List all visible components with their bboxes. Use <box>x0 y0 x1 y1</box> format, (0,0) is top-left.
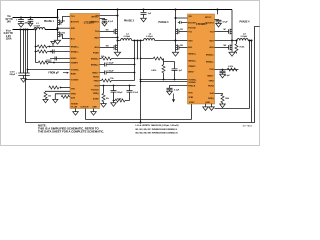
wire R temp tail <box>236 52 238 53</box>
node VOUT rail tap <box>26 28 28 30</box>
svg-text:PGOOD: PGOOD <box>188 27 196 29</box>
node ITH2 cap <box>222 69 224 71</box>
resistor RRUN1 <box>44 92 47 99</box>
resistor R temp lead <box>236 41 238 44</box>
svg-text:120A: 120A <box>6 38 12 41</box>
wire U2 BG2 gate <box>215 46 229 48</box>
node sense tap <box>34 28 36 30</box>
wire R3 to IC <box>36 62 71 64</box>
node L4 out b <box>250 39 252 41</box>
ground IC1 bottom A <box>73 112 79 116</box>
capacitor CIN1 leads <box>18 18 24 24</box>
svg-text:COUT: COUT <box>10 71 15 73</box>
svg-text:VOSNS−: VOSNS− <box>188 82 197 84</box>
svg-text:BOOST1: BOOST1 <box>188 22 197 24</box>
ground comp <box>111 101 117 107</box>
node L4 out a <box>248 39 250 41</box>
ground ILIM <box>53 99 58 102</box>
svg-text:PGND: PGND <box>93 52 99 54</box>
phase2 drain drop <box>117 10 119 52</box>
node VOSNS- <box>25 79 27 81</box>
svg-text:BOOST2: BOOST2 <box>90 21 99 23</box>
phase4 drain drop <box>231 10 233 52</box>
svg-text:THE DATA SHEET FOR A COMPLETE: THE DATA SHEET FOR A COMPLETE SCHEMATIC. <box>38 130 104 134</box>
inductor L3 <box>144 39 155 41</box>
wire sync arrow <box>173 94 175 100</box>
ground IC2 bottom B <box>209 107 215 111</box>
IC U1 left pin labels <box>71 16 80 100</box>
node VOUT mid tap <box>136 39 138 41</box>
ground C VIN mid <box>141 18 147 22</box>
resistor RITH1 <box>49 86 59 89</box>
wire SNS3 a <box>141 79 188 81</box>
IC U2 right pin labels <box>205 22 214 100</box>
IC U1 bottom pin labels <box>71 104 97 109</box>
svg-text:GND: GND <box>92 106 97 108</box>
svg-text:0.33µH: 0.33µH <box>146 36 153 38</box>
op-amp U1 LTC3877 block <box>70 14 100 109</box>
svg-text:2.2nF: 2.2nF <box>133 92 139 94</box>
svg-text:TRACK: TRACK <box>188 84 196 87</box>
wire TG2 gate <box>100 31 115 33</box>
svg-text:0.22µF: 0.22µF <box>107 71 114 73</box>
capacitor C INTVCC2 <box>216 20 222 23</box>
wire VOUT mid drop C <box>140 41 142 123</box>
node SNS3 c <box>174 79 176 81</box>
node ITH1 <box>60 87 62 89</box>
IC U1 right pin labels <box>90 15 99 100</box>
node VOUT ring join <box>139 121 141 123</box>
ground C TRACK <box>167 91 173 95</box>
wire SNSA2 <box>100 64 135 66</box>
wire SNSD2 <box>100 58 135 60</box>
resistor R SNS2 <box>102 79 112 82</box>
VOUT return ring wire <box>26 27 260 123</box>
op-amp U2 LTC3877 block <box>188 14 215 104</box>
wire R1b to IC <box>36 51 71 53</box>
wire SNS2 b <box>100 80 135 82</box>
svg-text:PHASE 3: PHASE 3 <box>159 21 170 24</box>
svg-text:L1-L4: WÜRTH 744301033 (0.33µH: L1-L4: WÜRTH 744301033 (0.33µH, 0.32mΩ) <box>136 124 179 127</box>
svg-text:RUN2: RUN2 <box>208 85 214 87</box>
svg-text:VFB2: VFB2 <box>94 80 100 82</box>
node comp gnd <box>113 100 115 102</box>
inductor L4 <box>237 39 248 41</box>
wire U2 SW2 <box>215 40 233 42</box>
wire SNS2 <box>100 72 135 74</box>
svg-text:SNSA1+: SNSA1+ <box>71 50 80 53</box>
resistor RT <box>221 94 224 102</box>
inductor L1 <box>34 28 45 30</box>
node SNSD2 tap <box>134 58 136 60</box>
svg-text:SNSA2+: SNSA2+ <box>91 64 100 67</box>
wire U2 TG1 gate <box>179 31 188 33</box>
node rail phase3 <box>174 8 176 10</box>
svg-text:4.7µF: 4.7µF <box>223 20 229 23</box>
svg-text:SNS1−: SNS1− <box>71 58 78 60</box>
svg-text:FREQ: FREQ <box>208 98 214 100</box>
node SNSA2 tap <box>134 64 136 66</box>
svg-text:M5: M5 <box>180 29 183 31</box>
svg-text:SNS2−: SNS2− <box>207 75 214 77</box>
ground M2 source <box>54 40 60 44</box>
capacitor 2.2nF <box>127 86 133 101</box>
node SNS3 d <box>140 81 142 83</box>
wire CLKOUT drop <box>85 109 87 120</box>
wire INTVCC2 <box>215 19 219 22</box>
wire RT lead <box>215 93 223 96</box>
svg-text:M1, M3, M5, M7: INFINEON BSC05: M1, M3, M5, M7: INFINEON BSC050NE2LS <box>136 129 178 131</box>
svg-text:BOOST1: BOOST1 <box>71 21 80 23</box>
svg-text:0.33µH: 0.33µH <box>241 36 248 38</box>
resistor R100k lead <box>103 86 105 94</box>
note text left <box>38 123 104 133</box>
resistor 4.53k <box>115 99 125 102</box>
resistor R1b <box>37 50 47 53</box>
node SNS3 a <box>140 79 142 81</box>
inductor line phase2/3 <box>118 40 176 42</box>
wire VOUT mid drop A <box>134 41 136 81</box>
svg-text:ILIM: ILIM <box>210 93 214 95</box>
svg-text:6.81k: 6.81k <box>151 70 157 72</box>
svg-text:ITEMP1: ITEMP1 <box>188 66 196 68</box>
wire U2 TG2 gate <box>215 31 229 33</box>
wire SW1 to IC <box>58 27 71 29</box>
node SW3 <box>174 39 176 41</box>
svg-text:ILIM: ILIM <box>71 97 75 99</box>
svg-text:M7: M7 <box>224 29 227 31</box>
ground CIN1 <box>18 23 24 27</box>
svg-text:GND: GND <box>206 102 211 104</box>
transistor M5 <box>176 29 179 35</box>
wire VIN pin jog <box>100 15 118 17</box>
transistor M3 <box>114 29 117 35</box>
IC U2 left pin labels <box>188 16 197 99</box>
page frame <box>1 1 260 146</box>
capacitor C VIN mid <box>141 10 147 18</box>
capacitor CIN2 leads <box>28 18 34 23</box>
transistor M6 <box>176 45 179 51</box>
svg-text:SNS2−: SNS2− <box>92 72 99 74</box>
svg-text:SNS1−: SNS1− <box>188 71 195 73</box>
wire U2 VIN pin <box>176 17 188 19</box>
wire RRUN1 tail <box>45 98 47 101</box>
ground stub R1a lead <box>52 44 54 46</box>
ground IC2 bottom A <box>203 107 209 111</box>
wire 4.53k joins <box>114 100 130 102</box>
node SNSD2 tap2 <box>137 58 139 60</box>
wire ILIM lead <box>55 94 70 100</box>
wire U2 BG1 gate <box>179 46 188 48</box>
note text right <box>136 124 179 134</box>
wire rail U2 drop <box>217 10 219 15</box>
ground IC1 lead A <box>75 109 77 112</box>
phase3 drain drop <box>175 10 177 52</box>
wire VOUT sense right <box>215 108 250 110</box>
sense tap vertical <box>35 30 37 63</box>
VOUT rail wire <box>13 29 58 31</box>
node VIN cap1 <box>20 16 22 18</box>
node VIN jog <box>116 14 118 16</box>
wire TRACK cap <box>170 86 188 89</box>
svg-text:PGOOD: PGOOD <box>91 89 99 91</box>
wire SNSD3 <box>141 58 164 60</box>
wire R1a to IC <box>36 46 71 48</box>
node ITH comp <box>113 85 115 87</box>
capacitor C SNS2 <box>105 71 107 75</box>
node VOUT mid tap <box>133 39 135 41</box>
svg-text:VOSNS+: VOSNS+ <box>188 79 197 81</box>
node R1b right <box>50 51 52 53</box>
node VIN cap2 <box>29 16 31 18</box>
inductor line phase4 <box>232 40 252 42</box>
ground R 100k <box>101 104 107 108</box>
svg-text:0.33µH: 0.33µH <box>124 36 131 38</box>
svg-text:0.1µF: 0.1µF <box>225 75 231 77</box>
node SW4 <box>231 39 233 41</box>
wire BG1 gate <box>61 34 70 38</box>
svg-text:14V: 14V <box>7 21 12 24</box>
wire SNS3 b <box>141 81 188 83</box>
node SW2 b <box>116 39 118 41</box>
svg-text:M8: M8 <box>224 45 227 47</box>
capacitor parallel R3 <box>46 60 51 61</box>
svg-text:PHASE 2: PHASE 2 <box>124 20 135 23</box>
node ITH comp <box>129 85 131 87</box>
transistor M8 <box>229 45 232 51</box>
wire TG1 gate <box>61 17 70 23</box>
wire PLLIN riser <box>191 104 193 120</box>
capacitor boost U2 <box>178 21 188 24</box>
wire RVFB1 join <box>68 96 71 98</box>
node rail cap <box>142 8 144 10</box>
svg-text:VIN: VIN <box>95 15 99 17</box>
wire R100k tail <box>103 102 105 104</box>
svg-text:ITEMP1: ITEMP1 <box>71 62 79 64</box>
wire clock bus <box>86 119 192 121</box>
svg-text:SNSA1+: SNSA1+ <box>188 60 197 63</box>
svg-text:SGND: SGND <box>93 98 99 100</box>
ground RT <box>220 104 226 108</box>
ground IC2 lead A <box>205 104 207 107</box>
ground C INTVCC2 <box>216 23 222 27</box>
ground CIN2 <box>28 23 33 26</box>
svg-text:0.1µF: 0.1µF <box>174 89 180 91</box>
wire SW2 to IC <box>100 37 118 39</box>
transistor M1 <box>58 20 61 26</box>
transistor M2 <box>58 32 61 38</box>
svg-text:SYNC: SYNC <box>189 102 195 104</box>
resistor R3 <box>38 61 48 64</box>
node SW2 a <box>116 36 118 38</box>
wire RT tail <box>222 103 224 104</box>
phase1 FET stack vertical <box>57 18 59 40</box>
ground M6 source <box>172 52 178 56</box>
svg-text:BOOST2: BOOST2 <box>205 22 214 24</box>
svg-text:VFB2: VFB2 <box>209 80 215 82</box>
ground C ITH2 <box>220 74 226 78</box>
node ring tap <box>24 28 26 30</box>
ground stub R1a <box>51 41 55 44</box>
svg-text:M6: M6 <box>180 45 183 47</box>
wire VOUT mid drop B <box>137 41 139 59</box>
svg-text:CLKOUT: CLKOUT <box>80 106 89 108</box>
svg-text:VIN: VIN <box>188 16 192 18</box>
capacitor C TRACK <box>167 88 173 91</box>
ground M4 source <box>114 52 120 56</box>
wire ITH1 <box>61 87 71 89</box>
capacitor COUT <box>18 73 29 78</box>
IC U2 bottom pin labels <box>189 102 211 104</box>
wire VOUT right drop A <box>249 41 251 109</box>
wire ITH1 comp <box>100 85 136 87</box>
node SNS2 tap <box>134 72 136 74</box>
VIN top distribution rail <box>58 10 233 18</box>
capacitor 100pF <box>111 86 117 101</box>
svg-text:MODE/: MODE/ <box>71 104 78 106</box>
svg-text:4.7µF: 4.7µF <box>108 20 114 23</box>
node R temp tap <box>235 39 237 41</box>
node SW1 a <box>56 27 58 29</box>
wire VOSNS+ <box>28 69 71 71</box>
ground M8 source <box>229 52 235 56</box>
node SNSD3 tap <box>140 58 142 60</box>
resistor R SNSD2 <box>102 57 112 60</box>
capacitor C sense2 <box>55 57 57 61</box>
capacitor C SNS3 <box>164 62 178 80</box>
wire FROM uP arrow <box>63 72 68 74</box>
resistor R1a <box>37 45 47 48</box>
capacitor C sense1 <box>53 50 55 54</box>
node VOSNS+ <box>27 69 29 71</box>
wire VOSNS- <box>26 79 71 81</box>
svg-text:RUN2: RUN2 <box>93 76 99 78</box>
node R3 right <box>53 62 55 64</box>
wire 6.81k tail <box>163 73 165 80</box>
svg-text:INTVCC: INTVCC <box>205 17 211 19</box>
ground C INTVCC1 <box>102 23 107 26</box>
capacitor C SNSA2 <box>105 63 107 67</box>
node rail U2 feed <box>216 8 218 10</box>
svg-text:RUN1: RUN1 <box>71 73 77 75</box>
svg-text:PHASE 4: PHASE 4 <box>240 20 251 23</box>
svg-text:SNSD1+: SNSD1+ <box>188 54 197 56</box>
capacitor C ITH2 <box>220 70 226 75</box>
wire INTVCC1 <box>100 19 105 20</box>
svg-text:FREQ: FREQ <box>93 93 99 95</box>
svg-text:0.22µF: 0.22µF <box>107 63 114 65</box>
svg-text:3877 TA01b: 3877 TA01b <box>243 124 253 127</box>
svg-text:100pF: 100pF <box>117 92 123 94</box>
wire RUN1 lead <box>46 90 71 93</box>
resistor R SNSD3 <box>153 57 163 60</box>
wire U2 SW1 <box>176 40 188 42</box>
node SNS3 b <box>163 79 165 81</box>
svg-text:VFB1: VFB1 <box>71 93 77 95</box>
svg-text:VFB1: VFB1 <box>188 97 194 99</box>
transistor M7 <box>229 29 232 35</box>
resistor 6.81k <box>162 65 165 73</box>
node rail phase2 <box>116 8 118 10</box>
resistor R ITH2 <box>227 68 237 71</box>
svg-text:PHASE 1: PHASE 1 <box>44 20 55 23</box>
resistor 6.81k lead <box>163 59 165 65</box>
node VOUT rail tap <box>19 28 21 30</box>
wire SNS1- <box>50 58 70 60</box>
svg-text:VOSNS+: VOSNS+ <box>71 69 80 71</box>
ground COUT <box>21 78 27 82</box>
VIN input wire <box>13 17 58 19</box>
svg-text:76.8k: 76.8k <box>239 47 245 49</box>
node R1b left <box>35 51 37 53</box>
wire BG2 gate <box>100 46 115 48</box>
wire COUT drops <box>21 30 28 74</box>
node U2 VIN tap <box>174 17 176 19</box>
node ITH comp <box>103 85 105 87</box>
node R1a left <box>35 46 37 48</box>
ground IC1 lead B <box>93 109 95 112</box>
resistor R temp4 <box>235 44 238 52</box>
svg-text:PLLIN: PLLIN <box>71 106 77 108</box>
transistor M4 <box>114 45 117 51</box>
ground IC2 lead B <box>211 104 213 107</box>
wire ITH2 comp <box>215 69 239 71</box>
node SW1 b <box>56 28 58 30</box>
node M1 drain <box>56 16 58 18</box>
node VOUT mid tap <box>139 39 141 41</box>
svg-text:M2, M4, M6, M8: INFINEON BSC01: M2, M4, M6, M8: INFINEON BSC010NE2LSI <box>136 131 178 134</box>
resistor R 100k <box>102 93 105 101</box>
node VOUT rail tap <box>22 28 24 30</box>
svg-text:SNSD1+: SNSD1+ <box>71 46 80 48</box>
svg-text:VOSNS−: VOSNS− <box>71 79 80 81</box>
node R1a right <box>49 46 51 48</box>
ground RRUN1 <box>43 99 48 102</box>
svg-text:SNSD2+: SNSD2+ <box>206 54 215 56</box>
svg-text:0.33µH: 0.33µH <box>34 26 41 28</box>
ground IC1 bottom B <box>91 112 97 116</box>
svg-text:FROM µP: FROM µP <box>48 73 59 75</box>
svg-text:330µF: 330µF <box>9 74 15 76</box>
inductor L2 <box>121 39 132 41</box>
svg-text:SNSA2+: SNSA2+ <box>206 60 215 63</box>
resistor RVFB1 <box>61 95 69 98</box>
svg-text:SNSD2+: SNSD2+ <box>91 58 100 60</box>
capacitor C INTVCC1 <box>102 20 107 23</box>
wire VOUT right drop B <box>251 41 253 123</box>
